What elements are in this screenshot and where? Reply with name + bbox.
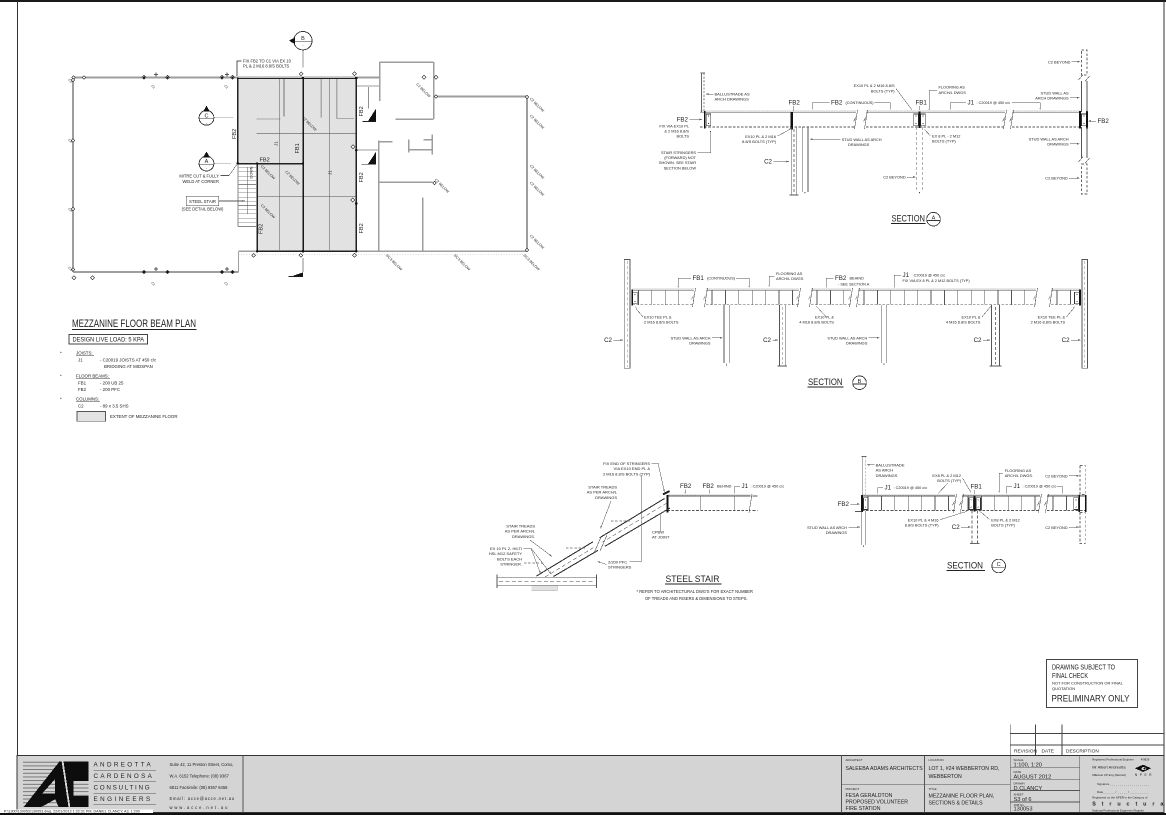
svg-text:FB2: FB2 <box>78 387 87 392</box>
svg-text:ARCH DRAWINGS: ARCH DRAWINGS <box>715 97 750 102</box>
svg-text:- 89 x 3.5 SHS: - 89 x 3.5 SHS <box>100 403 129 408</box>
svg-text:CPBW: CPBW <box>652 529 664 534</box>
svg-text:SECTIONS & DETAILS: SECTIONS & DETAILS <box>929 801 984 807</box>
interior partition walls <box>357 86 433 251</box>
logo letter C <box>63 761 89 807</box>
section A left beam FB2 end <box>704 111 706 128</box>
section A right end FB2 <box>1079 111 1081 128</box>
svg-text:FB2: FB2 <box>680 483 692 490</box>
section A balustrade <box>701 73 703 112</box>
section A mid FB2 connection <box>791 112 793 129</box>
wall column markers left wall <box>71 78 75 82</box>
svg-text:FIRE STATION: FIRE STATION <box>846 806 881 812</box>
stair detail floor band <box>668 494 751 496</box>
svg-text:AS PER ARCH/L: AS PER ARCH/L <box>587 490 618 495</box>
svg-text:BEHIND: BEHIND <box>850 277 865 281</box>
note steel stair box <box>186 196 219 205</box>
svg-text:- 200 UB 25: - 200 UB 25 <box>100 380 124 385</box>
svg-text:DRAWINGS: DRAWINGS <box>846 341 868 346</box>
svg-text:www.acce.net.au: www.acce.net.au <box>170 805 230 810</box>
svg-text:EXTENT OF MEZZANINE FLOOR: EXTENT OF MEZZANINE FLOOR <box>110 414 178 419</box>
svg-text:MIEAust CP Eng (Retired): MIEAust CP Eng (Retired) <box>1092 773 1126 777</box>
svg-text:DRAWINGS: DRAWINGS <box>876 473 898 478</box>
svg-text:: C20019 @ 450 c/c: : C20019 @ 450 c/c <box>894 486 928 490</box>
svg-text:C2 BEYOND: C2 BEYOND <box>1045 474 1068 479</box>
svg-text:DRAWINGS: DRAWINGS <box>848 142 870 147</box>
svg-text:D.CLANCY: D.CLANCY <box>1014 786 1043 792</box>
column tick symbols on walls <box>154 74 158 76</box>
section A column beyond under FB1 <box>916 127 918 192</box>
svg-text:FB2: FB2 <box>677 116 689 123</box>
svg-text:DESCRIPTION: DESCRIPTION <box>1066 749 1099 755</box>
stair stringer channels <box>537 499 665 577</box>
mezzanine floor hatched extent <box>238 78 357 252</box>
section cut flag C right <box>362 121 376 123</box>
svg-text:OF TREADS AND RISERS & DIMENSI: OF TREADS AND RISERS & DIMENSIONS TO STE… <box>645 596 748 601</box>
legend extent of mezzanine floor <box>77 412 106 422</box>
svg-text:2/200 PFC: 2/200 PFC <box>608 559 627 564</box>
node dots on beams <box>302 77 305 80</box>
svg-text:J1: J1 <box>274 141 279 146</box>
svg-text:- 200 PFC: - 200 PFC <box>100 387 120 392</box>
svg-text:STAIR TREADS: STAIR TREADS <box>588 484 617 489</box>
svg-text:FB2: FB2 <box>838 501 850 508</box>
svg-text:AT JOINT: AT JOINT <box>652 535 670 540</box>
svg-text:CARDENOSA: CARDENOSA <box>94 773 155 780</box>
svg-text:SECTION BELOW: SECTION BELOW <box>664 165 697 170</box>
svg-text:BOLTS (TYP): BOLTS (TYP) <box>991 522 1015 527</box>
nper diamond logo <box>1135 765 1151 772</box>
svg-text:130053: 130053 <box>1014 806 1033 812</box>
svg-text:* REFER TO ARCHITECTURAL DWG'S: * REFER TO ARCHITECTURAL DWG'S FOR EXACT… <box>637 589 753 594</box>
svg-text:: C20019 @ 450 c/c: : C20019 @ 450 c/c <box>912 274 946 278</box>
svg-text:DRAWN: DRAWN <box>1014 781 1025 785</box>
svg-text:BRIDGING AT MIDSPAN: BRIDGING AT MIDSPAN <box>104 364 153 369</box>
svg-text:2 M16 8.8/S BOLTS: 2 M16 8.8/S BOLTS <box>1031 319 1066 324</box>
svg-text:- SEE SECTION A: - SEE SECTION A <box>838 282 870 286</box>
svg-text:C2: C2 <box>764 158 772 165</box>
wall hidden edge dotted <box>239 253 528 255</box>
svg-text:NOT FOR CONSTRUCTION OR FINAL: NOT FOR CONSTRUCTION OR FINAL <box>1052 681 1124 686</box>
svg-text:C2: C2 <box>78 403 84 408</box>
svg-text:C: C <box>205 113 209 119</box>
svg-text:AS PER ARCH/L: AS PER ARCH/L <box>505 529 536 534</box>
svg-text:C2 BEYOND: C2 BEYOND <box>883 175 906 180</box>
plot stamp footer text <box>0 809 153 812</box>
svg-text:FESA GERALDTON: FESA GERALDTON <box>846 793 893 799</box>
beam FB1 centre <box>302 78 304 252</box>
svg-text:FB2: FB2 <box>359 172 365 182</box>
section cut flag A right <box>361 163 376 165</box>
title block main <box>17 756 1164 813</box>
svg-text:- C20019 JOISTS AT 450 c/c: - C20019 JOISTS AT 450 c/c <box>100 357 157 362</box>
svg-text:B: B <box>858 379 862 385</box>
svg-text:Signature: Signature <box>1097 782 1110 786</box>
section B right end plate <box>1075 292 1080 303</box>
svg-text:BEHIND: BEHIND <box>717 485 732 489</box>
svg-text:LOCATION: LOCATION <box>929 758 944 762</box>
svg-text:FLOOR BEAMS:: FLOOR BEAMS: <box>76 374 109 379</box>
svg-text:VIA EX10 END PL &: VIA EX10 END PL & <box>614 466 651 471</box>
section B column C2 mid 1 <box>778 305 780 366</box>
section A column C2 under mid <box>790 127 792 195</box>
svg-text:6811 Facsimile: (08) 9367 6458: 6811 Facsimile: (08) 9367 6458 <box>170 785 229 790</box>
svg-text:J1: J1 <box>968 100 975 107</box>
interior walls below mezzanine (grey) <box>257 79 355 119</box>
svg-text:FB2: FB2 <box>789 100 801 107</box>
svg-text:2 M16 8.8/S BOLTS: 2 M16 8.8/S BOLTS <box>644 319 679 324</box>
section B left end plate <box>633 292 638 303</box>
joist J1 line with arrows <box>279 79 281 250</box>
section A FB1 connection <box>919 112 921 128</box>
wall column markers bottom wall <box>142 270 146 274</box>
svg-text:FIX END OF STRINGERS: FIX END OF STRINGERS <box>603 461 650 466</box>
svg-text:Mr Albert Andreotta: Mr Albert Andreotta <box>1092 764 1126 769</box>
svg-text:8.8/S BOLTS (TYP): 8.8/S BOLTS (TYP) <box>905 522 940 527</box>
svg-text:4 M16 8.8/S BOLTS: 4 M16 8.8/S BOLTS <box>946 319 981 324</box>
svg-text:2 M16 8.8/S BOLTS (TYP): 2 M16 8.8/S BOLTS (TYP) <box>603 471 651 476</box>
section cut line jog near room <box>368 87 370 109</box>
svg-text:J1: J1 <box>903 272 910 279</box>
svg-text:FB2: FB2 <box>232 129 238 139</box>
section B right column C2 tall <box>1082 260 1088 369</box>
svg-text:1:100, 1:20: 1:100, 1:20 <box>1014 763 1042 769</box>
steel stair plan treads <box>238 168 257 223</box>
svg-text:National Professional Engineer: National Professional Engineers Register <box>1092 808 1144 812</box>
svg-text:QUOTATION: QUOTATION <box>1052 686 1075 691</box>
svg-text:B: B <box>301 36 305 42</box>
svg-text:STRINGER.: STRINGER. <box>500 562 522 567</box>
svg-text:SHEET: SHEET <box>1014 793 1024 797</box>
svg-text:BALLUSTRADE: BALLUSTRADE <box>876 462 905 467</box>
svg-text:DRAWINGS: DRAWINGS <box>826 530 848 535</box>
svg-text:4 M16 8.8/S BOLTS: 4 M16 8.8/S BOLTS <box>799 319 834 324</box>
svg-text:*: * <box>60 397 62 402</box>
svg-text:FB1: FB1 <box>971 483 983 490</box>
svg-text:C: C <box>997 562 1001 568</box>
svg-text:N P E R: N P E R <box>1135 773 1152 777</box>
svg-text:STAIR TREADS: STAIR TREADS <box>506 523 535 528</box>
svg-text:ENGINEERS: ENGINEERS <box>94 796 153 803</box>
svg-text:DRAWING SUBJECT TO: DRAWING SUBJECT TO <box>1052 665 1115 672</box>
svg-text:: C20019 @ 450 c/c: : C20019 @ 450 c/c <box>751 485 785 489</box>
section C left stud wall below <box>860 511 862 545</box>
svg-text:FB1: FB1 <box>295 143 301 153</box>
section C left beam FB2 <box>861 495 863 512</box>
svg-text:BOLTS (TYP): BOLTS (TYP) <box>932 139 956 144</box>
svg-text:DESIGN LIVE LOAD: 5 KPA: DESIGN LIVE LOAD: 5 KPA <box>73 337 145 344</box>
svg-text:JOISTS:: JOISTS: <box>76 351 93 356</box>
leader line below B cut <box>302 258 304 272</box>
svg-text:SECTION: SECTION <box>947 560 983 571</box>
stair hidden tread dashes <box>611 520 631 522</box>
svg-text:MEZZANINE FLOOR BEAM PLAN: MEZZANINE FLOOR BEAM PLAN <box>72 318 196 330</box>
svg-text:DRAWINGS: DRAWINGS <box>1047 142 1069 147</box>
section cut flag B bottom <box>289 275 304 277</box>
svg-text:C2 BEYOND: C2 BEYOND <box>1048 59 1071 64</box>
section C right end FB2 <box>1078 495 1080 512</box>
svg-text:PROPOSED VOLUNTEER: PROPOSED VOLUNTEER <box>846 799 909 805</box>
section marker B top <box>302 50 304 67</box>
svg-text:P:\1300\130053\130053.dwg, 22/: P:\1300\130053\130053.dwg, 22/01/2013 1:… <box>4 809 140 813</box>
section C FB1 connection <box>974 496 976 512</box>
svg-text:FB1: FB1 <box>693 275 705 282</box>
wall column markers top wall <box>142 75 146 79</box>
svg-text:Registered Professional Engine: Registered Professional Engineer <box>1092 757 1134 761</box>
svg-text:FB1: FB1 <box>916 100 928 107</box>
SECTION C flooring band <box>862 494 955 496</box>
svg-text:AUGUST 2012: AUGUST 2012 <box>1014 774 1052 780</box>
svg-text:C2: C2 <box>1062 337 1070 344</box>
section B stud wall 1 <box>723 305 725 363</box>
svg-text:DRAWINGS: DRAWINGS <box>595 495 617 500</box>
stair side lines <box>237 164 239 227</box>
connection diamonds mezzanine <box>299 72 303 76</box>
svg-text:J1: J1 <box>742 483 749 490</box>
stair detail band end break <box>749 494 752 513</box>
svg-text:CONSULTING: CONSULTING <box>94 785 152 792</box>
svg-text:C2 BEYOND: C2 BEYOND <box>1045 176 1068 181</box>
stringer break <box>591 535 608 556</box>
svg-text:J1: J1 <box>1014 483 1021 490</box>
svg-text:4/9828: 4/9828 <box>1141 757 1150 761</box>
svg-text:FB1: FB1 <box>78 380 87 385</box>
svg-text:STRINGERS: STRINGERS <box>608 565 632 570</box>
design live load box <box>69 335 148 345</box>
preliminary only box <box>1047 660 1138 708</box>
svg-text:FINAL CHECK: FINAL CHECK <box>1052 673 1088 680</box>
svg-text:ANDREOTTA: ANDREOTTA <box>94 762 154 769</box>
svg-text:Date: Date <box>1097 790 1103 794</box>
svg-text:WELD AT CORNER: WELD AT CORNER <box>183 179 220 184</box>
svg-text:FB2: FB2 <box>260 158 270 164</box>
svg-text:*: * <box>60 351 62 356</box>
svg-text:BOLTS (TYP): BOLTS (TYP) <box>871 88 895 93</box>
svg-text:(SEE DETAIL BELOW): (SEE DETAIL BELOW) <box>182 207 224 212</box>
beam FB2 mezzanine perimeter <box>238 78 357 252</box>
svg-text:DRAWINGS: DRAWINGS <box>689 341 711 346</box>
svg-text:FB2: FB2 <box>831 100 843 107</box>
svg-text:DATE: DATE <box>1042 749 1054 755</box>
section marker C <box>214 117 234 119</box>
svg-text:: C20019 @ 450 c/c: : C20019 @ 450 c/c <box>977 101 1011 105</box>
section B stud wall 2 <box>880 305 882 363</box>
svg-text:ARCH/L DWGS: ARCH/L DWGS <box>776 276 804 281</box>
svg-text:C2: C2 <box>763 337 771 344</box>
section C column C2 below FB1 <box>971 511 973 544</box>
svg-text:FB2: FB2 <box>359 223 365 233</box>
section marker A <box>214 163 231 165</box>
svg-text:(CONTINUOUS): (CONTINUOUS) <box>846 101 875 105</box>
svg-text:BOLTS (TYP): BOLTS (TYP) <box>937 478 961 483</box>
svg-text:BOLTS: BOLTS <box>677 134 690 139</box>
svg-text:SCALE: SCALE <box>1014 758 1024 762</box>
svg-text:DRAWINGS.: DRAWINGS. <box>512 534 535 539</box>
svg-text:C2: C2 <box>952 524 960 531</box>
joist bridging lines <box>257 132 357 134</box>
section C balustrade <box>862 457 864 497</box>
svg-text:MITRE CUT & FULLY: MITRE CUT & FULLY <box>179 174 219 179</box>
revision table <box>1010 725 1164 756</box>
svg-text:DOWN: DOWN <box>250 166 254 178</box>
svg-text:FB2: FB2 <box>835 275 847 282</box>
svg-text:PL & 2 M16 8.8/S BOLTS: PL & 2 M16 8.8/S BOLTS <box>243 64 289 69</box>
svg-text:(CONTINUOUS): (CONTINUOUS) <box>707 277 736 281</box>
svg-text:C2: C2 <box>604 337 612 344</box>
svg-text:J1: J1 <box>328 170 333 175</box>
svg-text:C2 BEYOND: C2 BEYOND <box>1045 525 1068 530</box>
joist J1 line 2 <box>329 79 331 250</box>
section A right column above <box>1080 81 1082 112</box>
svg-text:FB2: FB2 <box>259 224 265 234</box>
svg-text:PRELIMINARY ONLY: PRELIMINARY ONLY <box>1052 693 1130 703</box>
svg-text:A: A <box>932 215 936 221</box>
svg-text:A: A <box>205 159 209 165</box>
svg-text:STEEL STAIR: STEEL STAIR <box>189 199 216 204</box>
svg-text:J1: J1 <box>885 484 892 491</box>
svg-text:ARCHITECT: ARCHITECT <box>846 758 863 762</box>
svg-text:FIX VIA EX 8 PL & 2 M12 BOLTS: FIX VIA EX 8 PL & 2 M12 BOLTS (TYP) <box>903 279 971 283</box>
SECTION B flooring band <box>632 288 694 290</box>
section C column beyond right <box>1080 466 1085 495</box>
svg-text:AS ARCH: AS ARCH <box>876 468 894 473</box>
svg-text:Email: acce@acce.net.au: Email: acce@acce.net.au <box>170 796 235 801</box>
svg-text:Suite 42, 11 Preston Street, C: Suite 42, 11 Preston Street, Como, <box>170 762 234 767</box>
floor plan - outer building walls <box>73 78 527 273</box>
stair detail left end stringer connection <box>667 495 669 513</box>
svg-text:LOT 1, #24 WEBBERTON RD,: LOT 1, #24 WEBBERTON RD, <box>929 766 1000 772</box>
ground hatch pad <box>532 586 558 591</box>
svg-text:STEEL STAIR: STEEL STAIR <box>666 574 720 585</box>
svg-text:*: * <box>60 374 62 379</box>
svg-text:8.8/S BOLTS (TYP): 8.8/S BOLTS (TYP) <box>742 139 777 144</box>
svg-text:FB2: FB2 <box>703 483 715 490</box>
svg-text:ARCH/L DWGS.: ARCH/L DWGS. <box>1005 473 1033 478</box>
ground line under stair <box>497 576 597 578</box>
SECTION A flooring band <box>700 110 856 112</box>
svg-text:W.A. 6152 Telephone: (08) 9367: W.A. 6152 Telephone: (08) 9367 <box>170 774 230 779</box>
svg-text:C2: C2 <box>974 337 982 344</box>
svg-text:: C20019 @ 450 c/c: : C20019 @ 450 c/c <box>1023 485 1057 489</box>
svg-text:BOLTS EACH: BOLTS EACH <box>497 556 522 561</box>
svg-text:SECTION: SECTION <box>892 214 926 225</box>
svg-text:REVISION: REVISION <box>1014 749 1037 755</box>
svg-text:ARCH/L DWGS: ARCH/L DWGS <box>939 90 967 95</box>
svg-text:FB2: FB2 <box>359 106 365 116</box>
svg-text:HSL M12 SAFETY: HSL M12 SAFETY <box>489 551 523 556</box>
logo AC stripes <box>23 760 88 807</box>
svg-text:DATE: DATE <box>1014 770 1022 774</box>
wall column markers right wall <box>525 95 529 99</box>
svg-text:MEZZANINE FLOOR PLAN,: MEZZANINE FLOOR PLAN, <box>929 793 995 799</box>
svg-text:FB2: FB2 <box>1098 118 1110 125</box>
svg-text:COLUMNS:: COLUMNS: <box>76 397 99 402</box>
svg-text:SECTION: SECTION <box>808 377 843 388</box>
room top-right walls <box>380 62 434 119</box>
section A right column below <box>1080 127 1082 158</box>
section B column C2 mid 2 <box>991 305 993 366</box>
svg-text:EX 10 PL 2- HILTI: EX 10 PL 2- HILTI <box>490 546 522 551</box>
stair down arrow <box>246 167 248 213</box>
svg-text:ARCH DRAWINGS: ARCH DRAWINGS <box>1035 96 1069 101</box>
svg-text:TITLE: TITLE <box>929 787 937 791</box>
svg-text:SALEEBA ADAMS ARCHITECTS: SALEEBA ADAMS ARCHITECTS <box>846 766 924 772</box>
svg-text:J1: J1 <box>78 357 83 362</box>
svg-text:Registered on the NPER in the: Registered on the NPER in the Category o… <box>1092 796 1147 800</box>
svg-text:WEBBERTON: WEBBERTON <box>929 774 962 780</box>
svg-text:S t r u c t u r a l: S t r u c t u r a l <box>1092 801 1166 807</box>
logo letter A <box>24 761 69 807</box>
section A stud wall under mid <box>801 127 803 192</box>
section B left column C2 tall <box>624 260 630 369</box>
svg-text:PROJECT: PROJECT <box>846 787 860 791</box>
